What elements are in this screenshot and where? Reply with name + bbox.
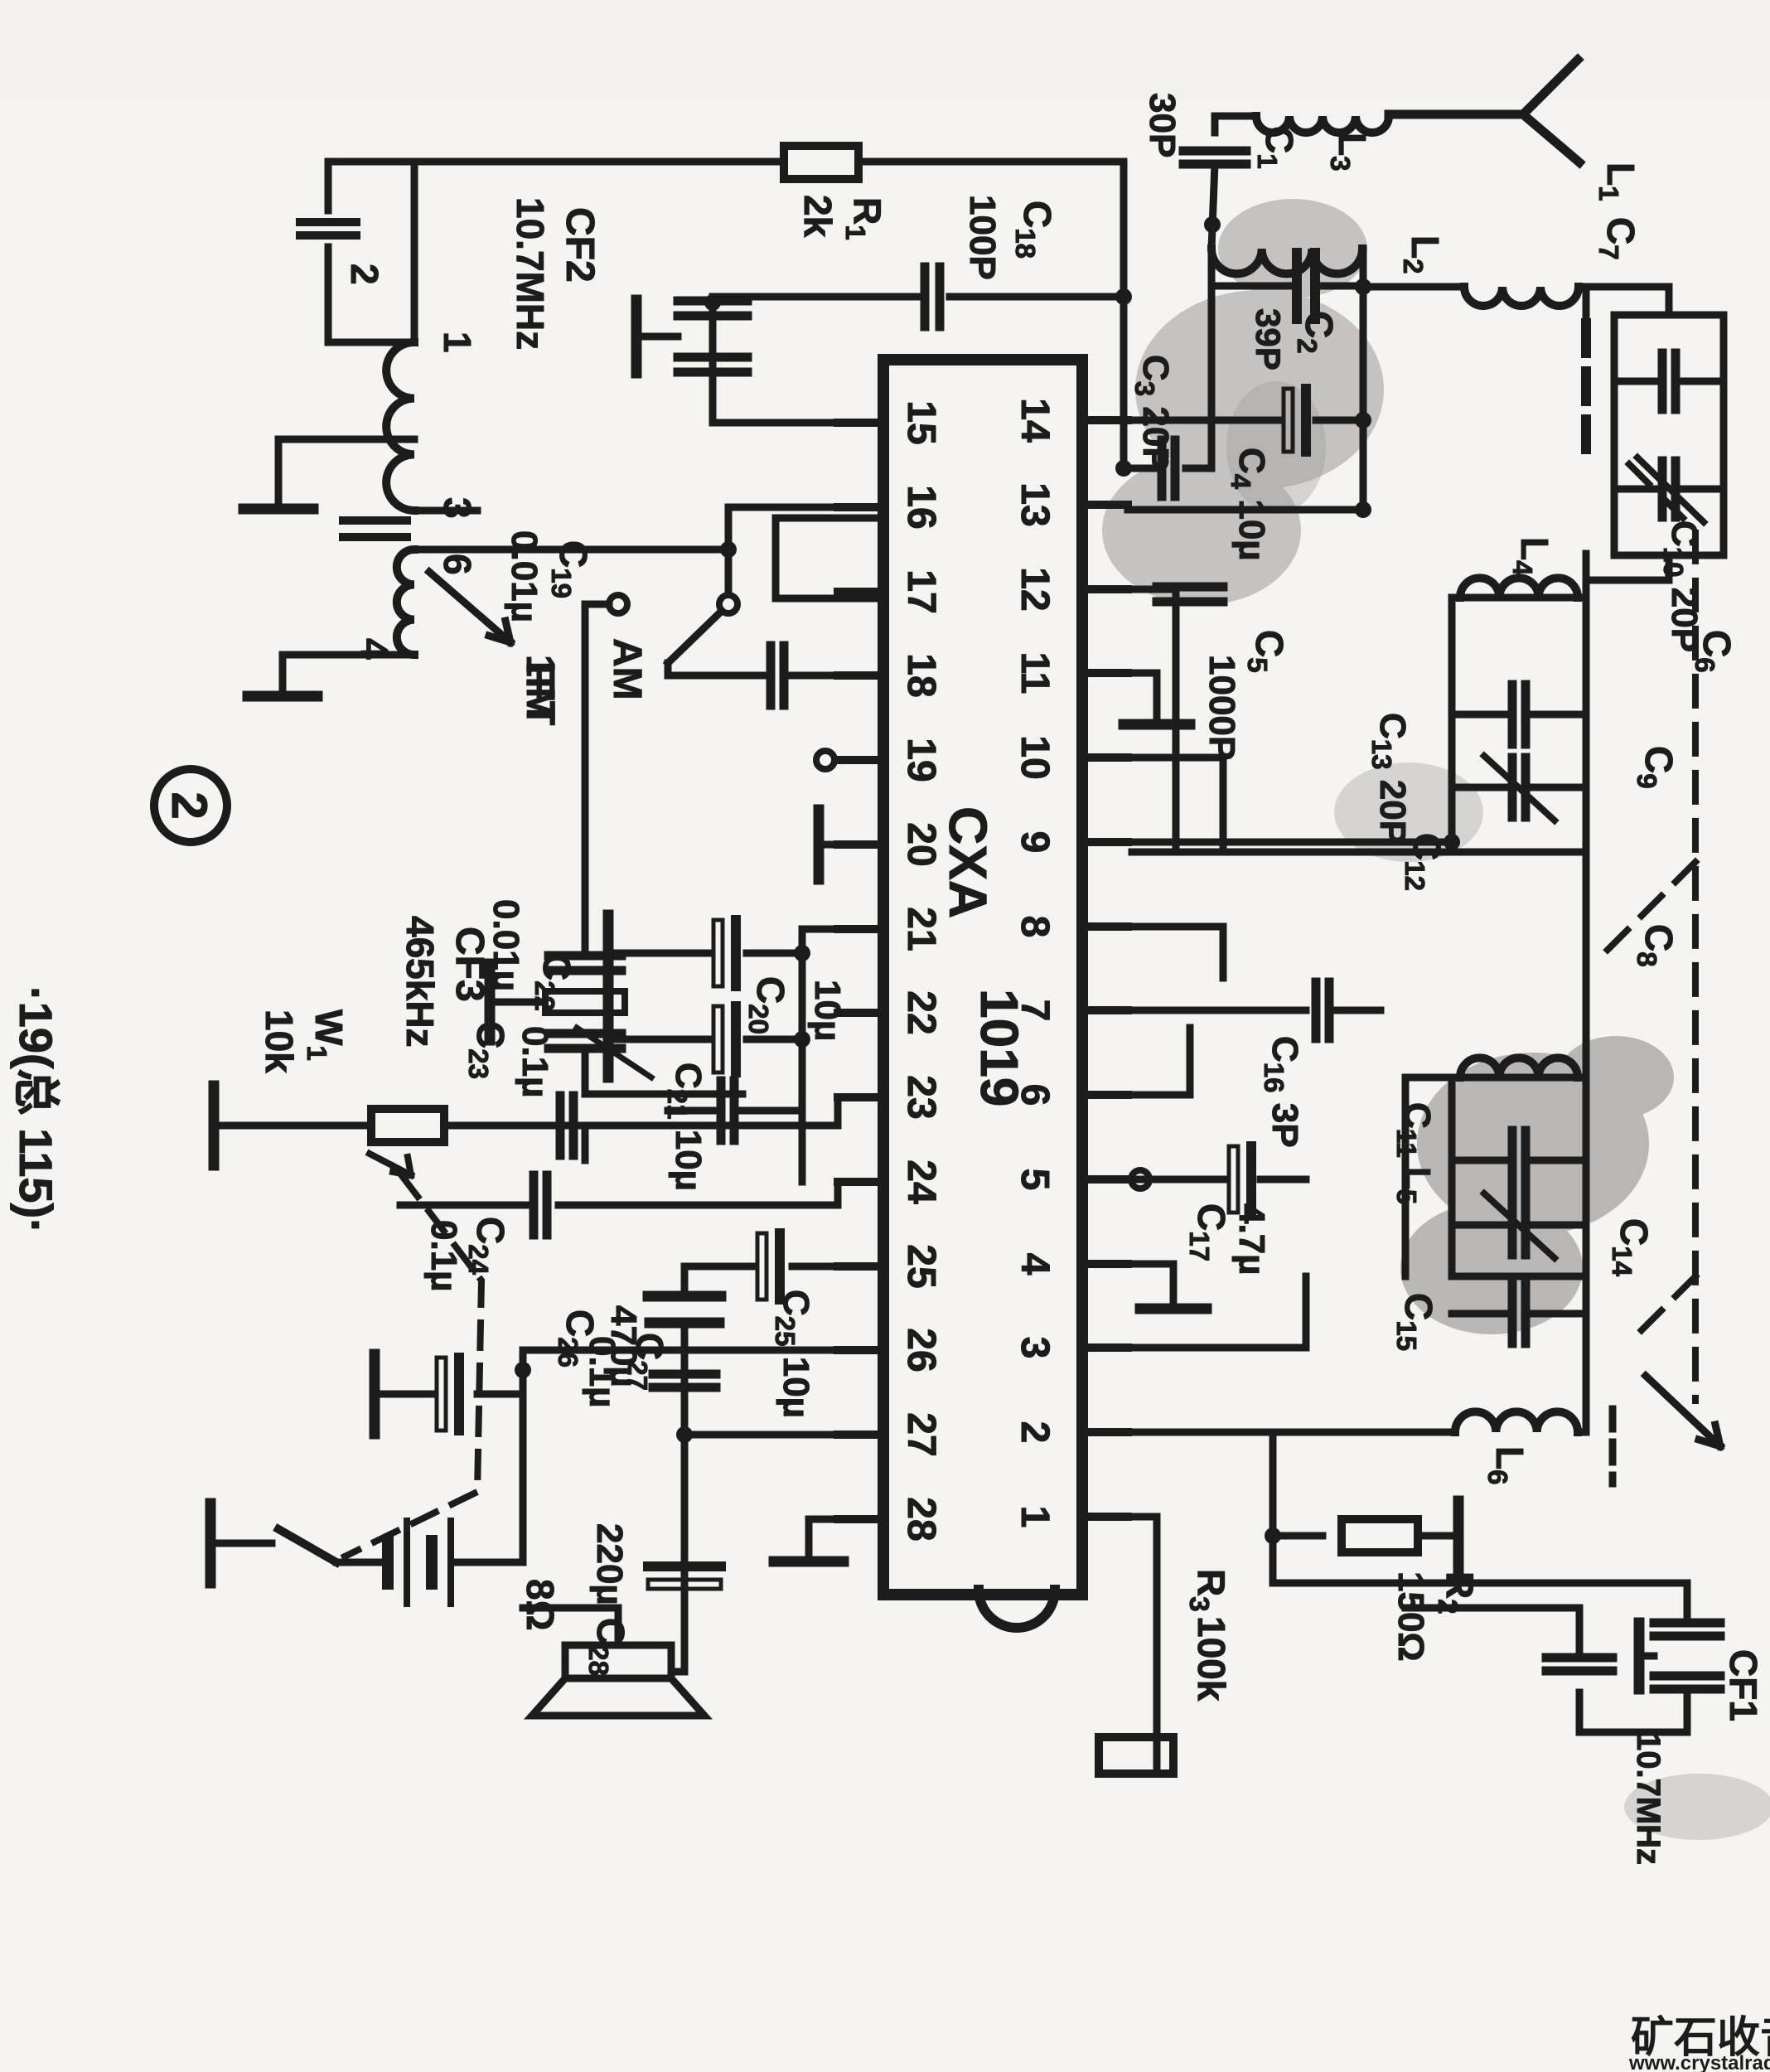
capacitor C4 10u (1316, 417, 1363, 424)
svg-text:9: 9 (1013, 831, 1057, 854)
svg-text:6: 6 (1013, 1084, 1057, 1106)
junction (1115, 288, 1132, 305)
svg-text:7: 7 (1013, 1000, 1057, 1022)
capacitor C11 (1521, 1130, 1531, 1190)
L6 core dashes (1609, 1409, 1617, 1484)
pin 5 stub (1082, 1175, 1128, 1184)
svg-text:CXA: CXA (938, 806, 998, 918)
R2 ground (1453, 1501, 1464, 1571)
resistor R1 2k (784, 146, 858, 179)
capacitor C6 (1671, 353, 1681, 409)
capacitor C5 1000P (1157, 583, 1223, 592)
capacitor C23 0.1u (582, 1126, 589, 1160)
scan smudges (1102, 199, 1384, 605)
pin 21 stub (838, 925, 883, 933)
padder rail risers (1132, 849, 1586, 856)
pin 27 stub (838, 1431, 883, 1439)
svg-text:21: 21 (899, 907, 943, 951)
switch AM contact (609, 595, 627, 613)
wire pin2 L6 (1128, 1429, 1273, 1436)
svg-text:4.7µ: 4.7µ (1231, 1203, 1272, 1276)
pin 17 stub (838, 588, 883, 596)
primary parallel capacitor C19b (328, 162, 414, 211)
pin 9 stub (1082, 838, 1128, 846)
svg-text:0.01µ: 0.01µ (504, 530, 544, 622)
svg-text:20: 20 (899, 822, 943, 866)
svg-text:11: 11 (1013, 652, 1057, 695)
pin 26 stub (838, 1346, 883, 1354)
capacitor C16 3P (1325, 982, 1334, 1038)
svg-text:2: 2 (1013, 1421, 1057, 1444)
capacitor C22 0.01u (742, 1107, 802, 1115)
capacitor C28 220u (648, 1561, 721, 1571)
wire L1 to box (1579, 287, 1586, 315)
pin 3 stub (1082, 1343, 1128, 1352)
svg-text:17: 17 (899, 569, 943, 613)
resistor R1 rail (858, 158, 1124, 166)
1FT tuning arrow (429, 572, 510, 642)
antenna (1389, 60, 1579, 162)
L1 core dashes (1581, 323, 1591, 464)
wire pin12/C5 rail (1128, 589, 1176, 852)
wire pin17 (838, 588, 883, 596)
svg-text:2: 2 (162, 792, 217, 819)
svg-text:0.1µ: 0.1µ (423, 1220, 464, 1292)
svg-text:0.1µ: 0.1µ (582, 1336, 622, 1408)
pin 7 stub (1082, 1006, 1128, 1014)
pin 15 stub (838, 419, 883, 427)
wire L5 tank bottom to pin5 rail (1405, 1077, 1452, 1276)
svg-text:22: 22 (899, 990, 943, 1034)
ground bar (244, 504, 313, 515)
pin5 open terminal (1131, 1170, 1149, 1188)
1FT primary winding pins 1-2-3 (386, 342, 414, 511)
pin4 ground (1128, 1264, 1173, 1305)
svg-text:C4 10µ: C4 10µ (1226, 448, 1272, 561)
pin 2 stub (1082, 1428, 1128, 1436)
svg-text:www.crystalradio.cn: www.crystalradio.cn (1628, 2052, 1770, 2072)
capacitor C17 4.7u (1131, 1176, 1223, 1184)
pin14 riser (1082, 417, 1124, 424)
capacitor C3 20P (1186, 465, 1211, 472)
wire L3 to C1 (1215, 116, 1256, 133)
battery ground bar (206, 1503, 216, 1583)
wire to 1FT primary (411, 162, 418, 342)
capacitor C21 10u (747, 1036, 802, 1043)
dot tank corners (1444, 834, 1460, 850)
trimmer C7 (1671, 461, 1681, 517)
svg-text:465kHz: 465kHz (399, 916, 442, 1048)
svg-text:10.7MHz: 10.7MHz (1630, 1732, 1666, 1865)
wire pin8 (1128, 927, 1223, 978)
svg-text:C3 20P: C3 20P (1129, 355, 1176, 472)
speaker return wire (523, 1608, 618, 1645)
svg-text:39P: 39P (1249, 308, 1288, 370)
svg-text:13: 13 (1013, 482, 1057, 526)
svg-text:5: 5 (1013, 1169, 1057, 1191)
junction (1204, 216, 1221, 233)
potentiometer W1 10k (371, 1109, 444, 1142)
gang dashed link (1604, 464, 1695, 1401)
CF1 return (1546, 1653, 1613, 1663)
coil L3 (1256, 116, 1389, 133)
capacitor C13 20P (1521, 685, 1531, 744)
W1 wiper arrow (370, 1154, 411, 1175)
svg-text:4: 4 (1013, 1253, 1057, 1276)
pin 10 stub (1082, 753, 1128, 762)
capacitor C26 470u (477, 1391, 523, 1398)
resistor R2 150 (1273, 1532, 1323, 1540)
capacitor C18 100P (950, 293, 1124, 301)
wire pin10 (1128, 758, 1223, 852)
C23 series cap (569, 1096, 578, 1155)
IC notch (979, 1590, 1055, 1628)
svg-text:12: 12 (1013, 567, 1057, 611)
wire C1/L2 node to C3 (1208, 249, 1216, 468)
pin 4 stub (1082, 1260, 1128, 1268)
IC U1 CXA1019 body (883, 360, 1082, 1595)
svg-text:0.01µ: 0.01µ (486, 899, 526, 991)
wire box bottom rail (1586, 287, 1669, 315)
pin 20 ground (819, 841, 883, 849)
capacitor C25 10u (792, 1263, 838, 1271)
CF3 ground wire left (582, 912, 589, 953)
pin28 ground (809, 1519, 838, 1558)
W1 wiper dashed link (345, 1177, 481, 1556)
pin15 wire (713, 419, 883, 427)
svg-text:CF1: CF1 (1722, 1649, 1765, 1721)
wire pin13 riser (1128, 506, 1363, 514)
L6 slug arrow (1646, 1376, 1720, 1446)
coil L4 (1460, 578, 1578, 598)
resistor R3 100k (1099, 1737, 1173, 1774)
speaker (565, 1645, 671, 1678)
capacitor C15 (1521, 1284, 1531, 1343)
svg-text:14: 14 (1013, 398, 1057, 443)
ceramic filter CF2 (678, 297, 747, 306)
svg-text:23: 23 (899, 1075, 943, 1119)
wire pin26 to C26 node (523, 1350, 838, 1562)
svg-text:C13 20P: C13 20P (1366, 713, 1413, 845)
wire top rail y780 (1120, 162, 1128, 468)
1FT secondary winding pins 6-4 (397, 549, 414, 655)
capacitor C2 39P (1318, 283, 1363, 290)
switch lever (668, 611, 722, 663)
coil L2 (1211, 249, 1362, 274)
power switch lever (278, 1529, 336, 1562)
pin 3 tail ground (414, 507, 477, 515)
coil L6 (1455, 1411, 1578, 1432)
pin 25 stub (838, 1262, 883, 1271)
svg-text:15: 15 (899, 400, 943, 444)
wire C18 node to CF2/pin15 (709, 297, 717, 423)
CF3 ground tap (494, 999, 540, 1006)
capacitor C1 30P (1183, 147, 1246, 156)
wire pin1 row (1082, 1513, 1128, 1521)
secondary right end ground (283, 655, 414, 696)
svg-text:24: 24 (899, 1159, 943, 1204)
pin 11 stub (1082, 669, 1128, 677)
coil L1 (1464, 287, 1579, 306)
CF3 out to pin18 (585, 1048, 742, 1094)
wire R1 to transformer (414, 158, 784, 166)
svg-text:2k: 2k (796, 195, 839, 238)
pin 18 stub (838, 671, 883, 680)
capacitor C24 0.1u (559, 1182, 838, 1205)
svg-text:CF2: CF2 (558, 207, 602, 283)
svg-text:18: 18 (899, 653, 943, 697)
wire pin2 branch to R2 (1269, 1432, 1277, 1583)
junction (1355, 412, 1371, 428)
wire pin23 volume bus (444, 1097, 838, 1126)
svg-text:10µ: 10µ (807, 980, 848, 1041)
pin 20 stub (838, 840, 883, 849)
svg-text:CF3: CF3 (447, 927, 491, 1002)
svg-text:220µ: 220µ (589, 1523, 630, 1605)
trimmer C12 (1521, 758, 1531, 817)
svg-text:2: 2 (343, 264, 386, 285)
pin 24 stub (838, 1178, 883, 1186)
wire C1 to L2 node (1211, 164, 1215, 249)
svg-text:1000P: 1000P (1202, 655, 1242, 760)
coil L5 (1460, 1058, 1578, 1077)
svg-text:100P: 100P (962, 195, 1003, 280)
wire pin9 L4 tank lower rail (1128, 839, 1452, 846)
pin 19 open terminal (816, 751, 834, 769)
pin 28 stub (838, 1515, 883, 1523)
CF2 ground tap (636, 333, 678, 341)
ground bar W1 (209, 1086, 220, 1165)
pin 23 stub (838, 1093, 883, 1101)
svg-text:26: 26 (899, 1328, 943, 1372)
wire pin6 (1128, 1028, 1190, 1095)
svg-text:1: 1 (436, 332, 479, 353)
wire L6 top (1578, 1429, 1586, 1436)
tuning gang C7 box (1614, 315, 1724, 555)
svg-text:30P: 30P (1142, 93, 1182, 157)
pin 8 stub (1082, 922, 1128, 931)
switch common contact (719, 595, 737, 613)
svg-text:AM: AM (605, 638, 649, 700)
svg-text:6: 6 (436, 554, 479, 575)
svg-text:10: 10 (1013, 735, 1057, 779)
primary tap ground wire (278, 439, 414, 509)
FM gang rail (1583, 554, 1590, 598)
pin 19 stub (838, 756, 883, 764)
svg-text:100k: 100k (1190, 1616, 1233, 1702)
capacitor C27 0.1u (681, 1381, 689, 1435)
battery cells (447, 1521, 454, 1604)
junction (1115, 460, 1132, 477)
wire pin21 bus (802, 929, 838, 1182)
svg-text:C25 10µ: C25 10µ (770, 1290, 816, 1418)
pin 6 stub (1082, 1091, 1128, 1099)
wire pin27 audio out (684, 1435, 838, 1641)
pin 12 stub (1082, 585, 1128, 593)
svg-text:1: 1 (1013, 1506, 1057, 1528)
ceramic filter CF1 (1273, 1583, 1687, 1623)
wire L2 top rail to pin13 (1360, 249, 1367, 511)
CF1 ground tap (1634, 1623, 1645, 1689)
pin27 wire (838, 1431, 883, 1439)
1FT core bars (343, 516, 407, 525)
L4 tank loop (1452, 598, 1586, 852)
svg-text:FM: FM (518, 663, 562, 720)
wire C28 to speaker (671, 1595, 684, 1672)
secondary left end riser to switch (414, 546, 728, 554)
circled figure number 2 (154, 769, 227, 842)
pin16 wire to switch common (728, 507, 883, 594)
pin 13 stub (1082, 501, 1128, 509)
L5 tank loop (1452, 1077, 1586, 1276)
svg-text:16: 16 (899, 485, 943, 529)
capacitor C20 10u (747, 950, 802, 957)
battery supply wire (457, 1559, 523, 1566)
battery to switch (336, 1559, 388, 1566)
svg-text:3: 3 (1013, 1337, 1057, 1359)
wire pin1/R3 (1128, 1517, 1157, 1774)
capacitor C19 0.01u (792, 672, 838, 680)
svg-text:0.1µ: 0.1µ (515, 1026, 555, 1098)
svg-text:27: 27 (899, 1412, 943, 1456)
svg-text:10k: 10k (258, 1009, 301, 1073)
svg-text:19: 19 (899, 738, 943, 782)
wire pin7 to C16 (1128, 1007, 1306, 1014)
svg-text:·19(总 115)·: ·19(总 115)· (10, 986, 62, 1234)
wire L6 bottom to pin2 (1273, 1429, 1455, 1436)
pin 14 stub (1082, 416, 1128, 424)
ground pin11 (1128, 673, 1157, 721)
svg-text:8: 8 (1013, 916, 1057, 938)
switch box loop pins16-17 (776, 518, 883, 598)
C22 pointer line (577, 1028, 651, 1077)
trimmer C14 (1521, 1195, 1531, 1255)
junction (1355, 501, 1371, 518)
wire pin3 (1128, 1276, 1306, 1348)
ground bar (248, 691, 317, 702)
svg-text:25: 25 (899, 1244, 943, 1288)
pin 16 stub (838, 503, 883, 511)
svg-text:28: 28 (899, 1497, 943, 1541)
pin 1 stub (1082, 1513, 1128, 1521)
pin 22 stub (838, 1009, 883, 1017)
svg-text:10.7MHz: 10.7MHz (509, 197, 552, 350)
ceramic filter CF3 465kHz (585, 604, 609, 953)
